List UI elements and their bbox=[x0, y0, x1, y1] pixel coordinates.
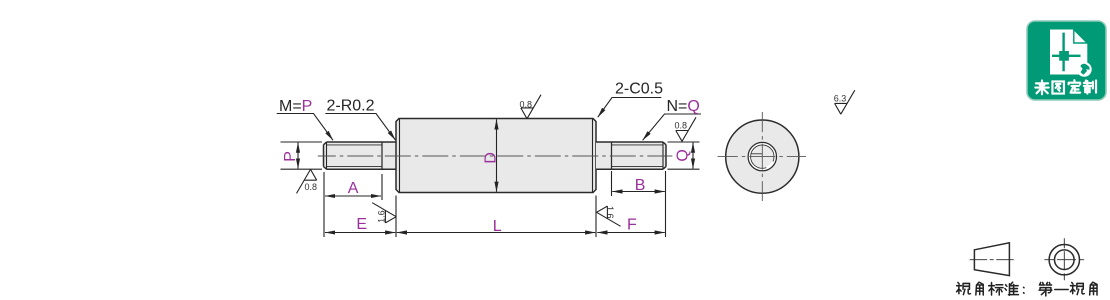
svg-text:2-C0.5: 2-C0.5 bbox=[615, 81, 663, 98]
shaft left journal (threaded, dia P) bbox=[324, 142, 397, 169]
svg-text:2-R0.2: 2-R0.2 bbox=[327, 98, 375, 115]
body chamfer edge lines bbox=[400, 119, 593, 193]
roughness 6.3 general bbox=[835, 90, 855, 114]
svg-text:6.3: 6.3 bbox=[834, 94, 847, 104]
dimension D bbox=[496, 119, 498, 192]
shaft middle body (dia D) bbox=[396, 119, 596, 193]
leader 2-R0.2 bbox=[325, 114, 395, 141]
badge text 来图定制 bbox=[1035, 80, 1096, 94]
badge tool circle bbox=[1077, 62, 1092, 77]
right journal chamfer line bbox=[662, 142, 664, 169]
projection symbol circles bbox=[1044, 238, 1084, 280]
leader N=Q bbox=[643, 114, 701, 140]
end view thread minor circle bbox=[751, 145, 774, 168]
badge document icon bbox=[1050, 30, 1087, 75]
badge background bbox=[1027, 21, 1106, 100]
leader 2-C0.5 bbox=[598, 98, 662, 118]
dimension F bbox=[597, 171, 665, 237]
svg-text:1.6: 1.6 bbox=[376, 210, 386, 223]
projection symbol cone bbox=[970, 243, 1014, 276]
left journal chamfer line bbox=[326, 142, 328, 169]
svg-text:P: P bbox=[282, 151, 299, 162]
roughness 1.6 right shoulder bbox=[597, 206, 621, 226]
svg-text:0.8: 0.8 bbox=[675, 121, 688, 131]
centerline main axis bbox=[318, 155, 673, 157]
svg-text:A: A bbox=[348, 180, 359, 197]
dimension P bbox=[281, 142, 323, 169]
dimension B bbox=[612, 171, 665, 196]
badge crosshair bbox=[1052, 33, 1081, 72]
shaft right journal (threaded, dia Q) bbox=[596, 142, 666, 169]
roughness 1.6 left shoulder bbox=[372, 203, 396, 223]
roughness 0.8 below P (inverted) bbox=[297, 169, 317, 193]
dimension L bbox=[397, 196, 596, 238]
end view thread major circle bbox=[748, 142, 776, 170]
right journal thread start line bbox=[611, 142, 613, 169]
end view outer circle bbox=[718, 112, 807, 201]
dimension Q bbox=[668, 142, 700, 169]
dimension A bbox=[324, 172, 382, 237]
roughness 0.8 above Q bbox=[676, 117, 696, 141]
caption 视角标准： 第一视角 bbox=[957, 282, 1097, 296]
svg-text:0.8: 0.8 bbox=[520, 99, 533, 109]
end view chord line bbox=[751, 153, 762, 155]
end view thread minor gap bbox=[766, 162, 773, 168]
left journal thread minor lines bbox=[327, 145, 383, 167]
svg-text:M=P: M=P bbox=[279, 98, 312, 115]
svg-text:N=Q: N=Q bbox=[667, 98, 700, 115]
svg-text:D: D bbox=[482, 152, 499, 164]
svg-text:F: F bbox=[627, 217, 637, 234]
right journal thread minor lines bbox=[612, 145, 664, 167]
left journal thread end line bbox=[381, 142, 383, 169]
svg-text:B: B bbox=[635, 177, 646, 194]
svg-text:L: L bbox=[493, 218, 502, 235]
svg-text:0.8: 0.8 bbox=[305, 182, 318, 192]
end view centerlines bbox=[718, 156, 807, 158]
svg-text:E: E bbox=[356, 216, 367, 233]
leader M=P bbox=[277, 114, 333, 141]
svg-text:1.6: 1.6 bbox=[605, 206, 615, 219]
svg-text:Q: Q bbox=[674, 149, 691, 161]
roughness 0.8 on body top bbox=[521, 95, 541, 119]
dimension E bbox=[325, 196, 396, 238]
